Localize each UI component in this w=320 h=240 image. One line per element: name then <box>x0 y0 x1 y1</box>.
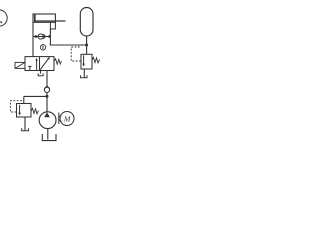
relief valve V1 drain wire <box>24 117 26 131</box>
clipped circled label at left edge <box>0 10 7 26</box>
solenoid actuator <box>15 62 25 68</box>
junction dot pump branch <box>46 95 49 98</box>
wire rod-side port to pressure line <box>50 29 86 45</box>
motor M circle <box>60 112 74 126</box>
wire pump suction <box>47 129 49 140</box>
relief valve V2 flow arrow <box>82 55 85 66</box>
relief valve V1 flow arrow <box>18 105 21 116</box>
directional valve divider <box>39 57 41 71</box>
pump circle <box>39 112 56 129</box>
directional valve spring <box>54 59 61 64</box>
pump outlet triangle <box>44 112 50 117</box>
cylinder port boss <box>50 22 55 29</box>
cylinder rod <box>35 20 66 22</box>
wire pump feed <box>46 96 48 112</box>
accumulator <box>80 8 93 37</box>
relief valve V1 inlet wire <box>23 96 25 103</box>
wire check valve branch <box>33 36 50 38</box>
cylinder body <box>33 14 55 22</box>
svg-text:M: M <box>63 114 71 123</box>
directional valve body <box>25 57 54 71</box>
junction dot left of check valve <box>34 35 37 38</box>
directional valve left square blocked port <box>28 66 32 70</box>
wire accumulator stem / relief inlet <box>86 36 88 54</box>
relief valve V1 body <box>17 104 32 118</box>
check valve C2 ball <box>44 87 49 92</box>
relief valve V2 drain wire <box>83 69 85 78</box>
relief valve V1 pilot line (dashed) <box>10 101 23 112</box>
relief valve V2 spring <box>92 57 100 63</box>
relief valve V2 body <box>81 54 92 69</box>
relief valve V1 spring <box>31 108 39 114</box>
relief valve V2 pilot line (dashed) <box>71 46 81 61</box>
junction dot pressure line <box>85 44 88 47</box>
wire pump pressure line upper <box>46 71 48 87</box>
check valve C1 ball <box>38 34 43 39</box>
junction dot right of check valve <box>48 35 51 38</box>
directional valve tank stub <box>40 71 42 74</box>
check valve C2 seat <box>44 86 49 89</box>
coupling shaft <box>59 113 62 125</box>
directional valve left square up arrow <box>35 58 37 70</box>
label 1 circled <box>40 45 45 50</box>
suction tank <box>42 134 56 141</box>
cylinder piston <box>34 14 36 22</box>
directional valve right square diagonal arrow <box>41 57 50 71</box>
wire below check valve C2 <box>46 93 48 97</box>
wire head-side port down to valve <box>32 22 34 56</box>
wire relief branch to left valve <box>24 95 47 97</box>
relief valve V1 tank <box>22 128 29 131</box>
directional valve tank <box>38 73 43 75</box>
relief valve V2 tank <box>81 75 87 77</box>
check valve C1 seat <box>43 34 46 39</box>
